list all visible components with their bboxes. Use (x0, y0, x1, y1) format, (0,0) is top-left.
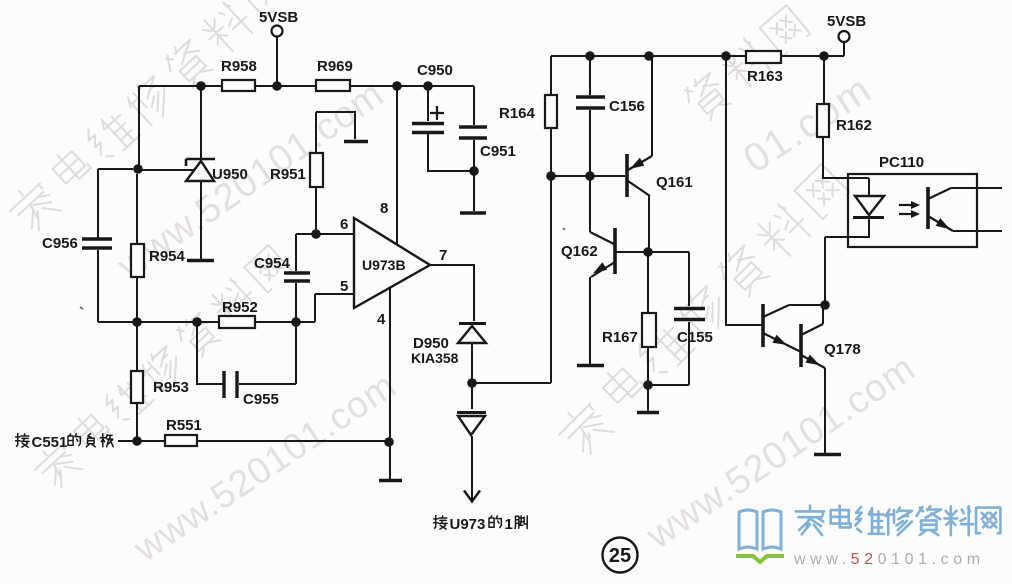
svg-text:R163: R163 (747, 68, 783, 85)
svg-text:U950: U950 (212, 166, 248, 183)
svg-text:R167: R167 (602, 329, 638, 346)
svg-text:www.520101.com: www.520101.com (793, 551, 985, 568)
svg-text:R164: R164 (499, 105, 536, 122)
svg-text:7: 7 (439, 247, 447, 264)
svg-text:R551: R551 (166, 417, 202, 434)
svg-text:Q162: Q162 (561, 243, 598, 260)
svg-text:4: 4 (377, 311, 386, 328)
svg-text:R951: R951 (270, 166, 306, 183)
svg-text:C950: C950 (417, 62, 453, 79)
svg-text:Q161: Q161 (656, 174, 693, 191)
svg-text:KIA358: KIA358 (411, 350, 459, 366)
svg-text:8: 8 (380, 200, 388, 217)
svg-text:Q178: Q178 (824, 341, 861, 358)
svg-text:C956: C956 (42, 235, 78, 252)
svg-text:C155: C155 (677, 329, 713, 346)
svg-text:C954: C954 (254, 255, 291, 272)
svg-text:R953: R953 (153, 379, 189, 396)
svg-text:1: 1 (505, 516, 513, 533)
svg-text:U973: U973 (450, 516, 486, 533)
svg-text:U973B: U973B (362, 257, 406, 273)
svg-text:C551: C551 (32, 434, 68, 451)
svg-text:R969: R969 (317, 58, 353, 75)
svg-text:5VSB: 5VSB (827, 13, 866, 30)
svg-text:5: 5 (340, 278, 348, 295)
svg-text:C156: C156 (609, 98, 645, 115)
svg-text:25: 25 (609, 545, 631, 567)
svg-text:PC110: PC110 (879, 154, 924, 171)
svg-text:R954: R954 (149, 248, 186, 265)
svg-text:5VSB: 5VSB (259, 9, 298, 26)
svg-text:C955: C955 (243, 391, 279, 408)
svg-text:R162: R162 (836, 117, 872, 134)
svg-text:C951: C951 (480, 143, 516, 160)
svg-text:R958: R958 (221, 58, 257, 75)
svg-text:R952: R952 (222, 299, 258, 316)
svg-text:6: 6 (340, 216, 348, 233)
